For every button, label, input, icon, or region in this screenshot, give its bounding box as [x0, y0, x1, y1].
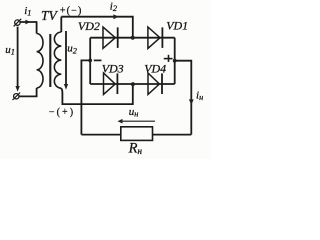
minus sign negative output — [94, 59, 102, 61]
svg-text:VD1: VD1 — [166, 19, 188, 33]
wire secondary top lead — [60, 17, 62, 32]
node dot bottom AC junction — [131, 82, 135, 86]
transformer core — [49, 34, 51, 87]
diode VD4 — [148, 73, 159, 94]
current arrow in — [189, 99, 194, 105]
wire bottom loop left — [81, 134, 120, 136]
transformer TV secondary winding — [54, 32, 61, 88]
bridge bottom row wire — [90, 83, 175, 85]
svg-text:VD2: VD2 — [78, 19, 100, 33]
bridge left rail — [89, 38, 91, 84]
resistor Rn body — [121, 127, 153, 141]
svg-text:VD4: VD4 — [144, 62, 166, 76]
diode VD1 — [148, 27, 160, 48]
voltage arrow u1 — [17, 27, 19, 88]
svg-text:VD3: VD3 — [102, 61, 124, 75]
svg-text:+(−): +(−) — [60, 5, 83, 16]
bridge right rail — [174, 38, 176, 84]
terminal bottom-left input — [14, 94, 19, 99]
terminal top-left input — [15, 20, 20, 25]
svg-text:TV: TV — [41, 8, 59, 23]
current arrow i2 — [113, 14, 118, 19]
wire positive output lead — [175, 61, 192, 135]
wire top input — [20, 21, 37, 23]
wire top AC run — [61, 17, 133, 38]
diode VD3 — [104, 73, 116, 94]
wire bottom loop right — [153, 134, 192, 136]
wire primary top lead — [36, 22, 38, 34]
node dot positive output — [173, 59, 177, 63]
voltage arrow u2 — [65, 31, 67, 86]
diode VD2 — [103, 27, 115, 48]
plus sign positive output — [164, 58, 173, 60]
wire primary bottom lead — [19, 88, 37, 96]
voltage arrow un — [121, 120, 156, 122]
node dot negative output — [88, 59, 92, 63]
bridge top row wire — [90, 37, 175, 39]
node dot top AC junction — [131, 36, 135, 40]
wire negative output lead — [81, 60, 90, 134]
current arrow i1 — [25, 20, 30, 25]
transformer TV primary winding — [37, 34, 43, 89]
svg-text:−(+): −(+) — [49, 107, 75, 118]
wire secondary bottom lead — [61, 84, 133, 104]
